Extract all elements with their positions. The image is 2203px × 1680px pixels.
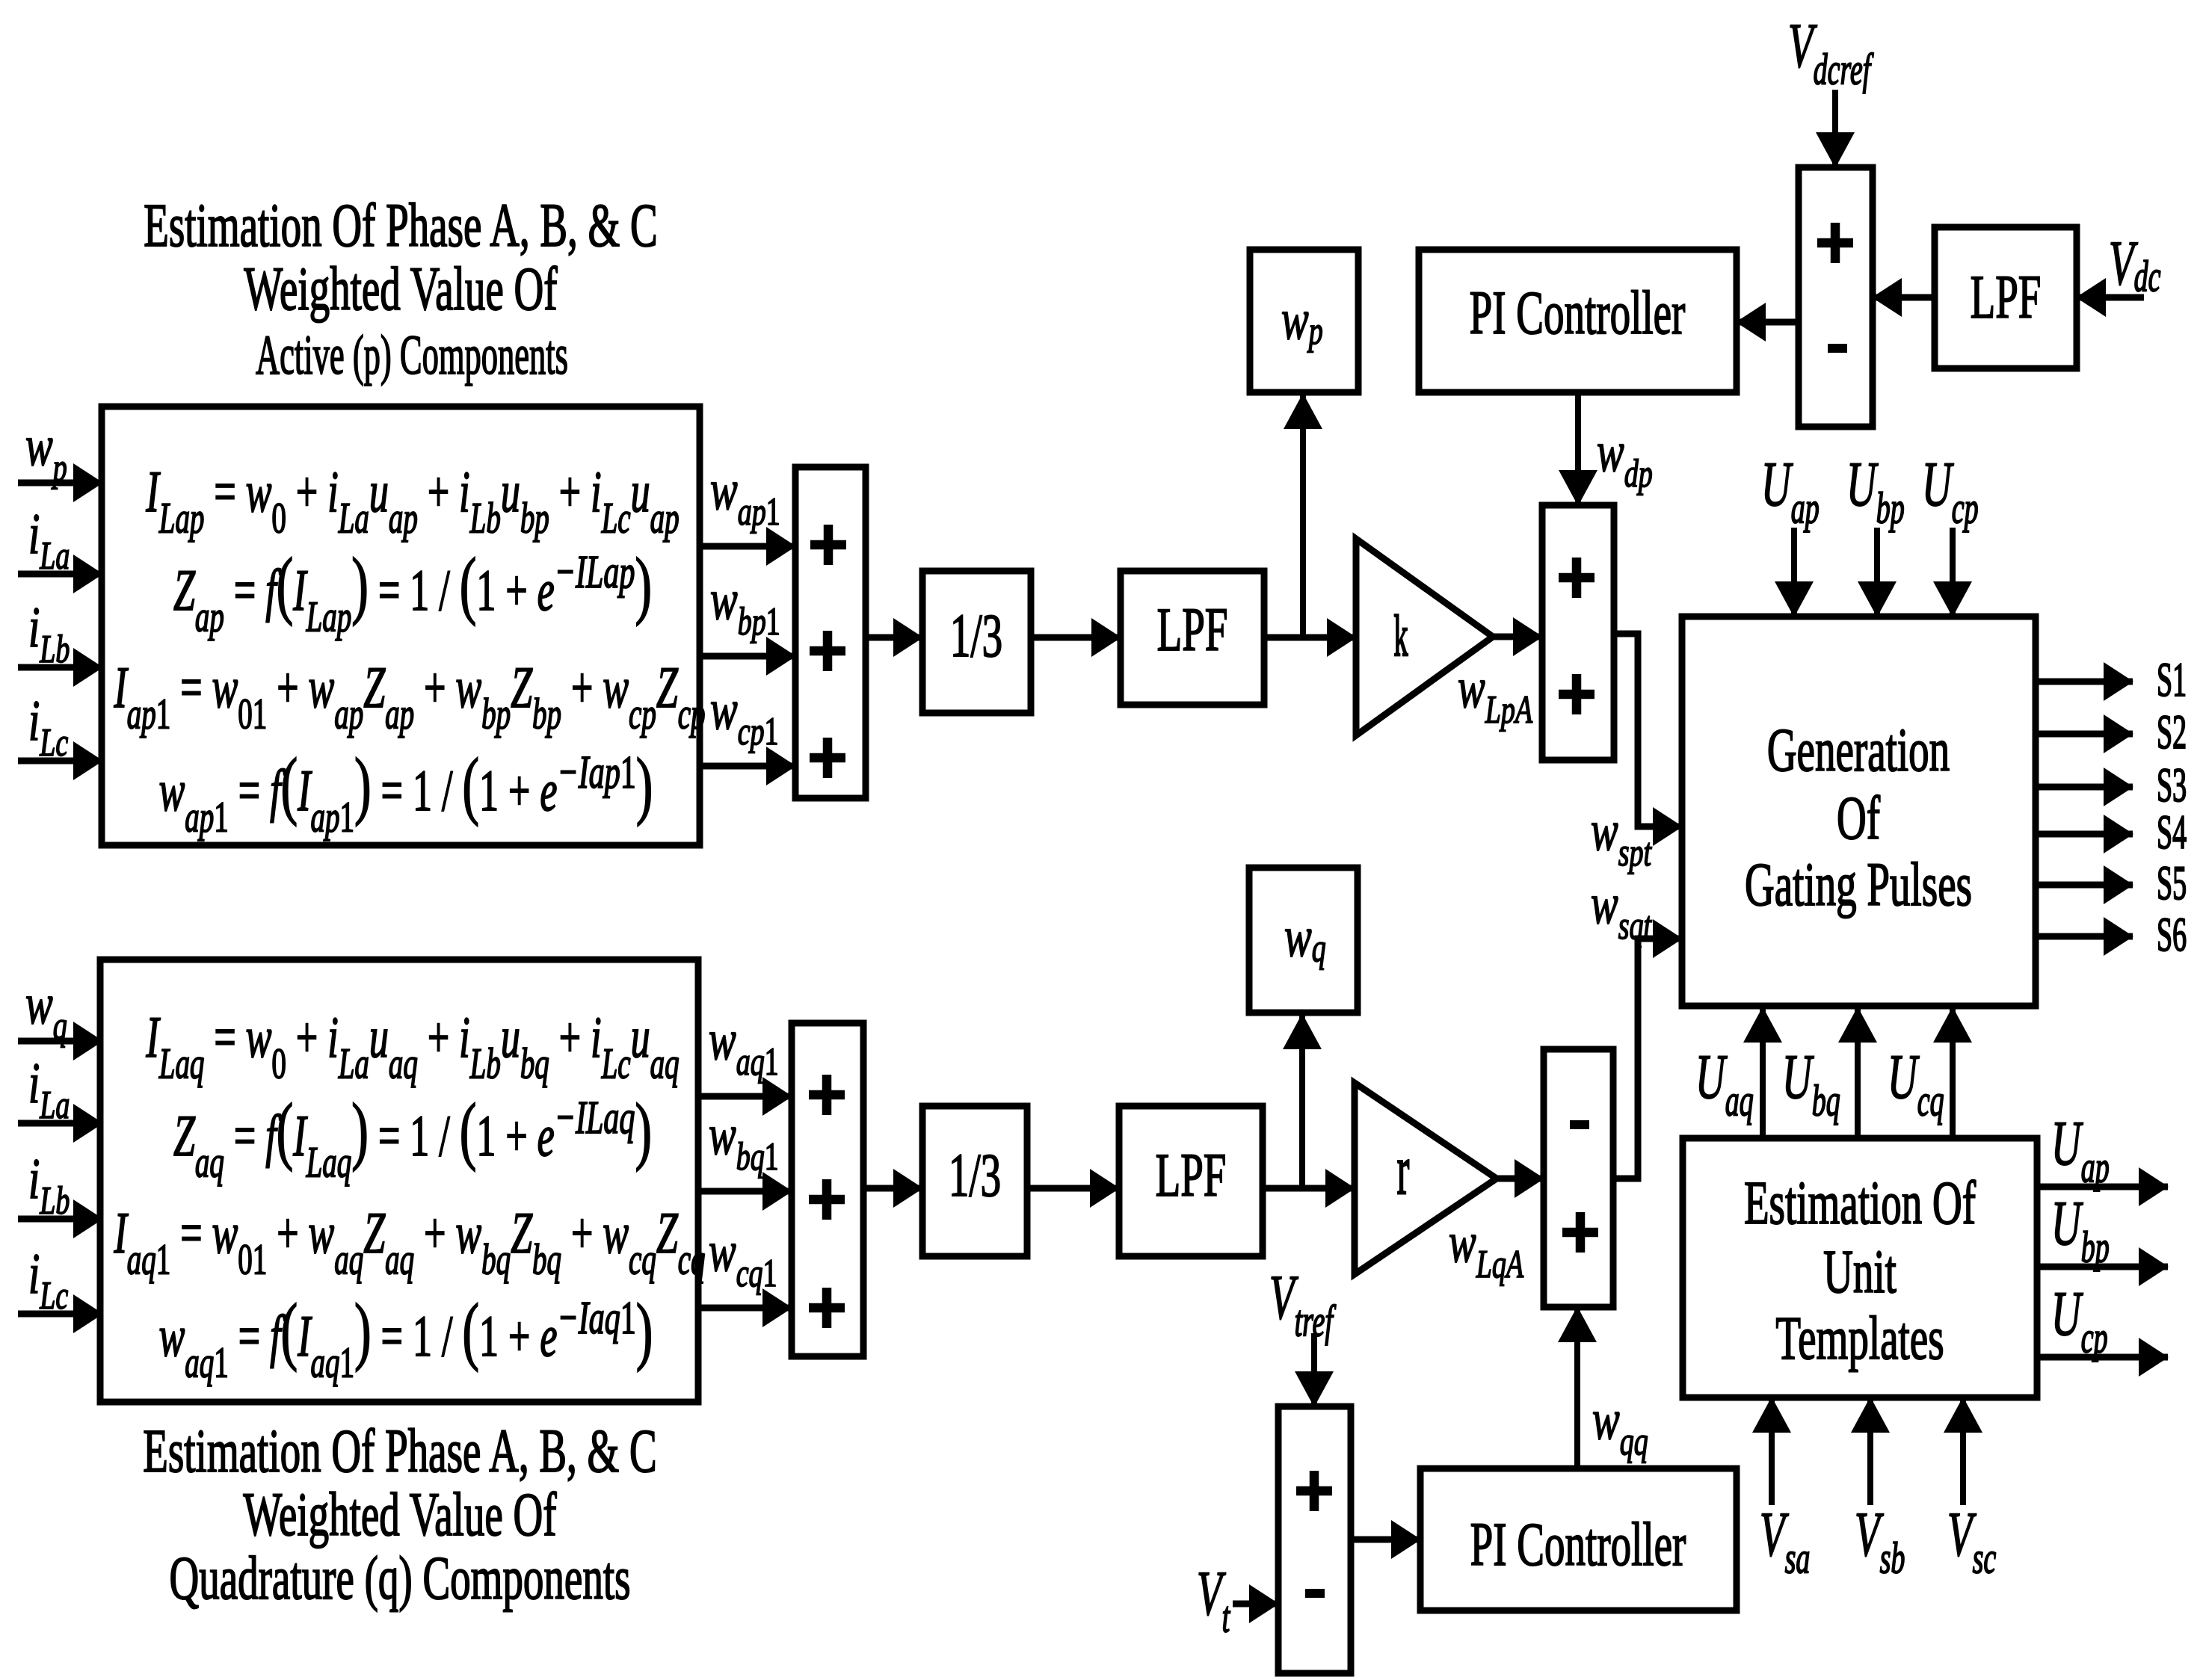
wire Vsb arrow into unit templates bbox=[1867, 1398, 1873, 1505]
summer Sac (plus minus, Vt) bbox=[1278, 1406, 1351, 1673]
wire Uap output arrow bbox=[2037, 1184, 2168, 1190]
svg-text:Weighted Value Of: Weighted Value Of bbox=[244, 256, 558, 324]
wire S5 output bbox=[2036, 882, 2133, 889]
svg-text:Unit: Unit bbox=[1823, 1238, 1897, 1306]
wire waq1 arrow bbox=[698, 1093, 792, 1100]
summer S2p (plus plus) bbox=[1542, 505, 1614, 760]
summer S2q (minus plus) bbox=[1544, 1049, 1613, 1307]
summer S1q (plus plus plus) bbox=[792, 1023, 863, 1356]
block LPF (top chain) bbox=[1121, 571, 1264, 705]
svg-text:1/3: 1/3 bbox=[950, 602, 1002, 670]
wire Ucp arrow into generation box bbox=[1950, 528, 1956, 617]
svg-text:S2: S2 bbox=[2157, 706, 2187, 759]
svg-text:k: k bbox=[1394, 604, 1408, 668]
svg-text:Templates: Templates bbox=[1775, 1305, 1944, 1373]
svg-text:PI Controller: PI Controller bbox=[1470, 280, 1686, 348]
wire Uap arrow into generation box bbox=[1791, 528, 1797, 617]
block: estimation of weighted value of active components (equations box) bbox=[102, 407, 706, 845]
gain k (triangle) bbox=[1356, 539, 1493, 735]
wire Vsa arrow into unit templates bbox=[1769, 1398, 1775, 1505]
wire LPF to gain r bbox=[1263, 1185, 1355, 1192]
svg-text:LPF: LPF bbox=[1157, 596, 1228, 664]
wire LPF to summer Sdc bbox=[1873, 294, 1935, 301]
wire branch up to wp box bbox=[1300, 394, 1306, 637]
wire wp input arrow bbox=[18, 480, 102, 487]
svg-text:S4: S4 bbox=[2157, 806, 2187, 859]
wire Uaq arrow up to generation box bbox=[1760, 1007, 1766, 1138]
svg-text:S6: S6 bbox=[2157, 909, 2187, 962]
wire S6 output bbox=[2036, 933, 2133, 940]
block PI Controller (ac bus) bbox=[1420, 1469, 1737, 1610]
block LPF (bottom chain) bbox=[1119, 1106, 1263, 1256]
svg-text:Estimation Of Phase A, B, & C: Estimation Of Phase A, B, & C bbox=[144, 192, 657, 260]
title block: Estimation Of Phase A, B, & C Weighted Value Of Quadrature (q) Components bbox=[143, 1418, 656, 1613]
wire wsqt from summer S2q to generation box bbox=[1613, 939, 1682, 1179]
wire LPF to gain k bbox=[1264, 634, 1356, 641]
wire summer to 1/3 (q) bbox=[863, 1185, 922, 1192]
wire wcp1 arrow bbox=[700, 763, 795, 770]
wire wap1 arrow bbox=[700, 543, 795, 550]
wire Ucq arrow up to generation box bbox=[1950, 1007, 1956, 1138]
wire Vt arrow bbox=[1233, 1601, 1278, 1608]
wire wbq1 arrow bbox=[698, 1188, 792, 1195]
block LPF (Vdc) bbox=[1935, 227, 2077, 368]
svg-text:S1: S1 bbox=[2157, 654, 2187, 707]
svg-text:Quadrature (q) Components: Quadrature (q) Components bbox=[169, 1545, 630, 1613]
svg-text:S5: S5 bbox=[2157, 857, 2187, 910]
wire summer to 1/3 bbox=[866, 634, 922, 641]
wire Ucp output arrow bbox=[2037, 1354, 2168, 1361]
wire Ubp output arrow bbox=[2037, 1264, 2168, 1270]
wire iLb input arrow (q block) bbox=[18, 1216, 102, 1223]
wire Ubq arrow up to generation box bbox=[1855, 1007, 1861, 1138]
block Estimation Of Unit Templates bbox=[1683, 1138, 2037, 1398]
block 1/3 (top) bbox=[922, 571, 1031, 713]
svg-text:LPF: LPF bbox=[1156, 1142, 1227, 1210]
wire iLc input arrow (q block) bbox=[18, 1311, 102, 1318]
block Generation Of Gating Pulses bbox=[1682, 617, 2036, 1006]
svg-text:Of: Of bbox=[1837, 785, 1881, 853]
block wq display box bbox=[1249, 868, 1358, 1013]
wire summer Sac to PI controller bbox=[1351, 1537, 1420, 1543]
wire Ubp arrow into generation box bbox=[1874, 528, 1880, 617]
summer Sdc (plus minus, Vdcref) bbox=[1799, 167, 1873, 427]
wire S1 output bbox=[2036, 679, 2133, 685]
wire 1/3 to LPF (q) bbox=[1027, 1185, 1119, 1192]
svg-text:Weighted Value Of: Weighted Value Of bbox=[243, 1481, 557, 1549]
gain r (triangle) bbox=[1355, 1083, 1497, 1274]
block 1/3 (bottom) bbox=[922, 1106, 1027, 1256]
wire wspt from summer S2p to generation box bbox=[1614, 634, 1682, 827]
wire Vsc arrow into unit templates bbox=[1960, 1398, 1966, 1505]
title block: Estimation Of Phase A, B, & C Weighted Value Of Active (p) Components bbox=[144, 192, 657, 386]
svg-text:Active (p) Components: Active (p) Components bbox=[256, 324, 568, 386]
svg-text:PI Controller: PI Controller bbox=[1470, 1511, 1686, 1579]
block wp display box bbox=[1250, 250, 1358, 392]
wire iLa input arrow (q block) bbox=[18, 1120, 102, 1127]
wire iLa input arrow bbox=[18, 571, 102, 578]
wire Vtref arrow into summer Sac bbox=[1311, 1333, 1317, 1406]
svg-text:Estimation Of: Estimation Of bbox=[1744, 1170, 1976, 1238]
svg-text:LPF: LPF bbox=[1971, 264, 2042, 332]
block PI Controller (dc bus) bbox=[1419, 250, 1737, 392]
wire S4 output bbox=[2036, 831, 2133, 838]
wire 1/3 to LPF bbox=[1031, 634, 1121, 641]
wire S3 output bbox=[2036, 784, 2133, 791]
svg-text:r: r bbox=[1397, 1131, 1410, 1209]
wire Vdc arrow into LPF bbox=[2077, 294, 2144, 301]
wire summer to PI controller bbox=[1737, 319, 1799, 326]
wire k to summer bbox=[1493, 634, 1542, 640]
wire iLc input arrow bbox=[18, 758, 102, 765]
svg-text:Generation: Generation bbox=[1767, 717, 1950, 785]
wire iLb input arrow bbox=[18, 664, 102, 671]
wire Vdcref arrow bbox=[1832, 90, 1838, 167]
svg-text:Gating Pulses: Gating Pulses bbox=[1745, 851, 1972, 919]
wire branch up to wq box bbox=[1299, 1014, 1305, 1188]
wire S2 output bbox=[2036, 731, 2133, 738]
wire r to summer S2q bbox=[1497, 1176, 1544, 1182]
block: estimation of weighted value of quadrature components (equations box) bbox=[100, 960, 706, 1402]
wire wdp from PI controller to summer bbox=[1575, 392, 1581, 505]
svg-text:1/3: 1/3 bbox=[949, 1142, 1001, 1210]
wire wq input arrow bbox=[18, 1038, 102, 1045]
wire wbp1 arrow bbox=[700, 653, 795, 660]
summer S1p (plus plus plus) bbox=[795, 467, 866, 798]
svg-text:S3: S3 bbox=[2157, 759, 2187, 812]
svg-text:Estimation Of Phase A, B, & C: Estimation Of Phase A, B, & C bbox=[143, 1418, 656, 1486]
wire wcq1 arrow bbox=[698, 1305, 792, 1312]
wire wqq from PI controller to summer S2q bbox=[1574, 1307, 1580, 1469]
